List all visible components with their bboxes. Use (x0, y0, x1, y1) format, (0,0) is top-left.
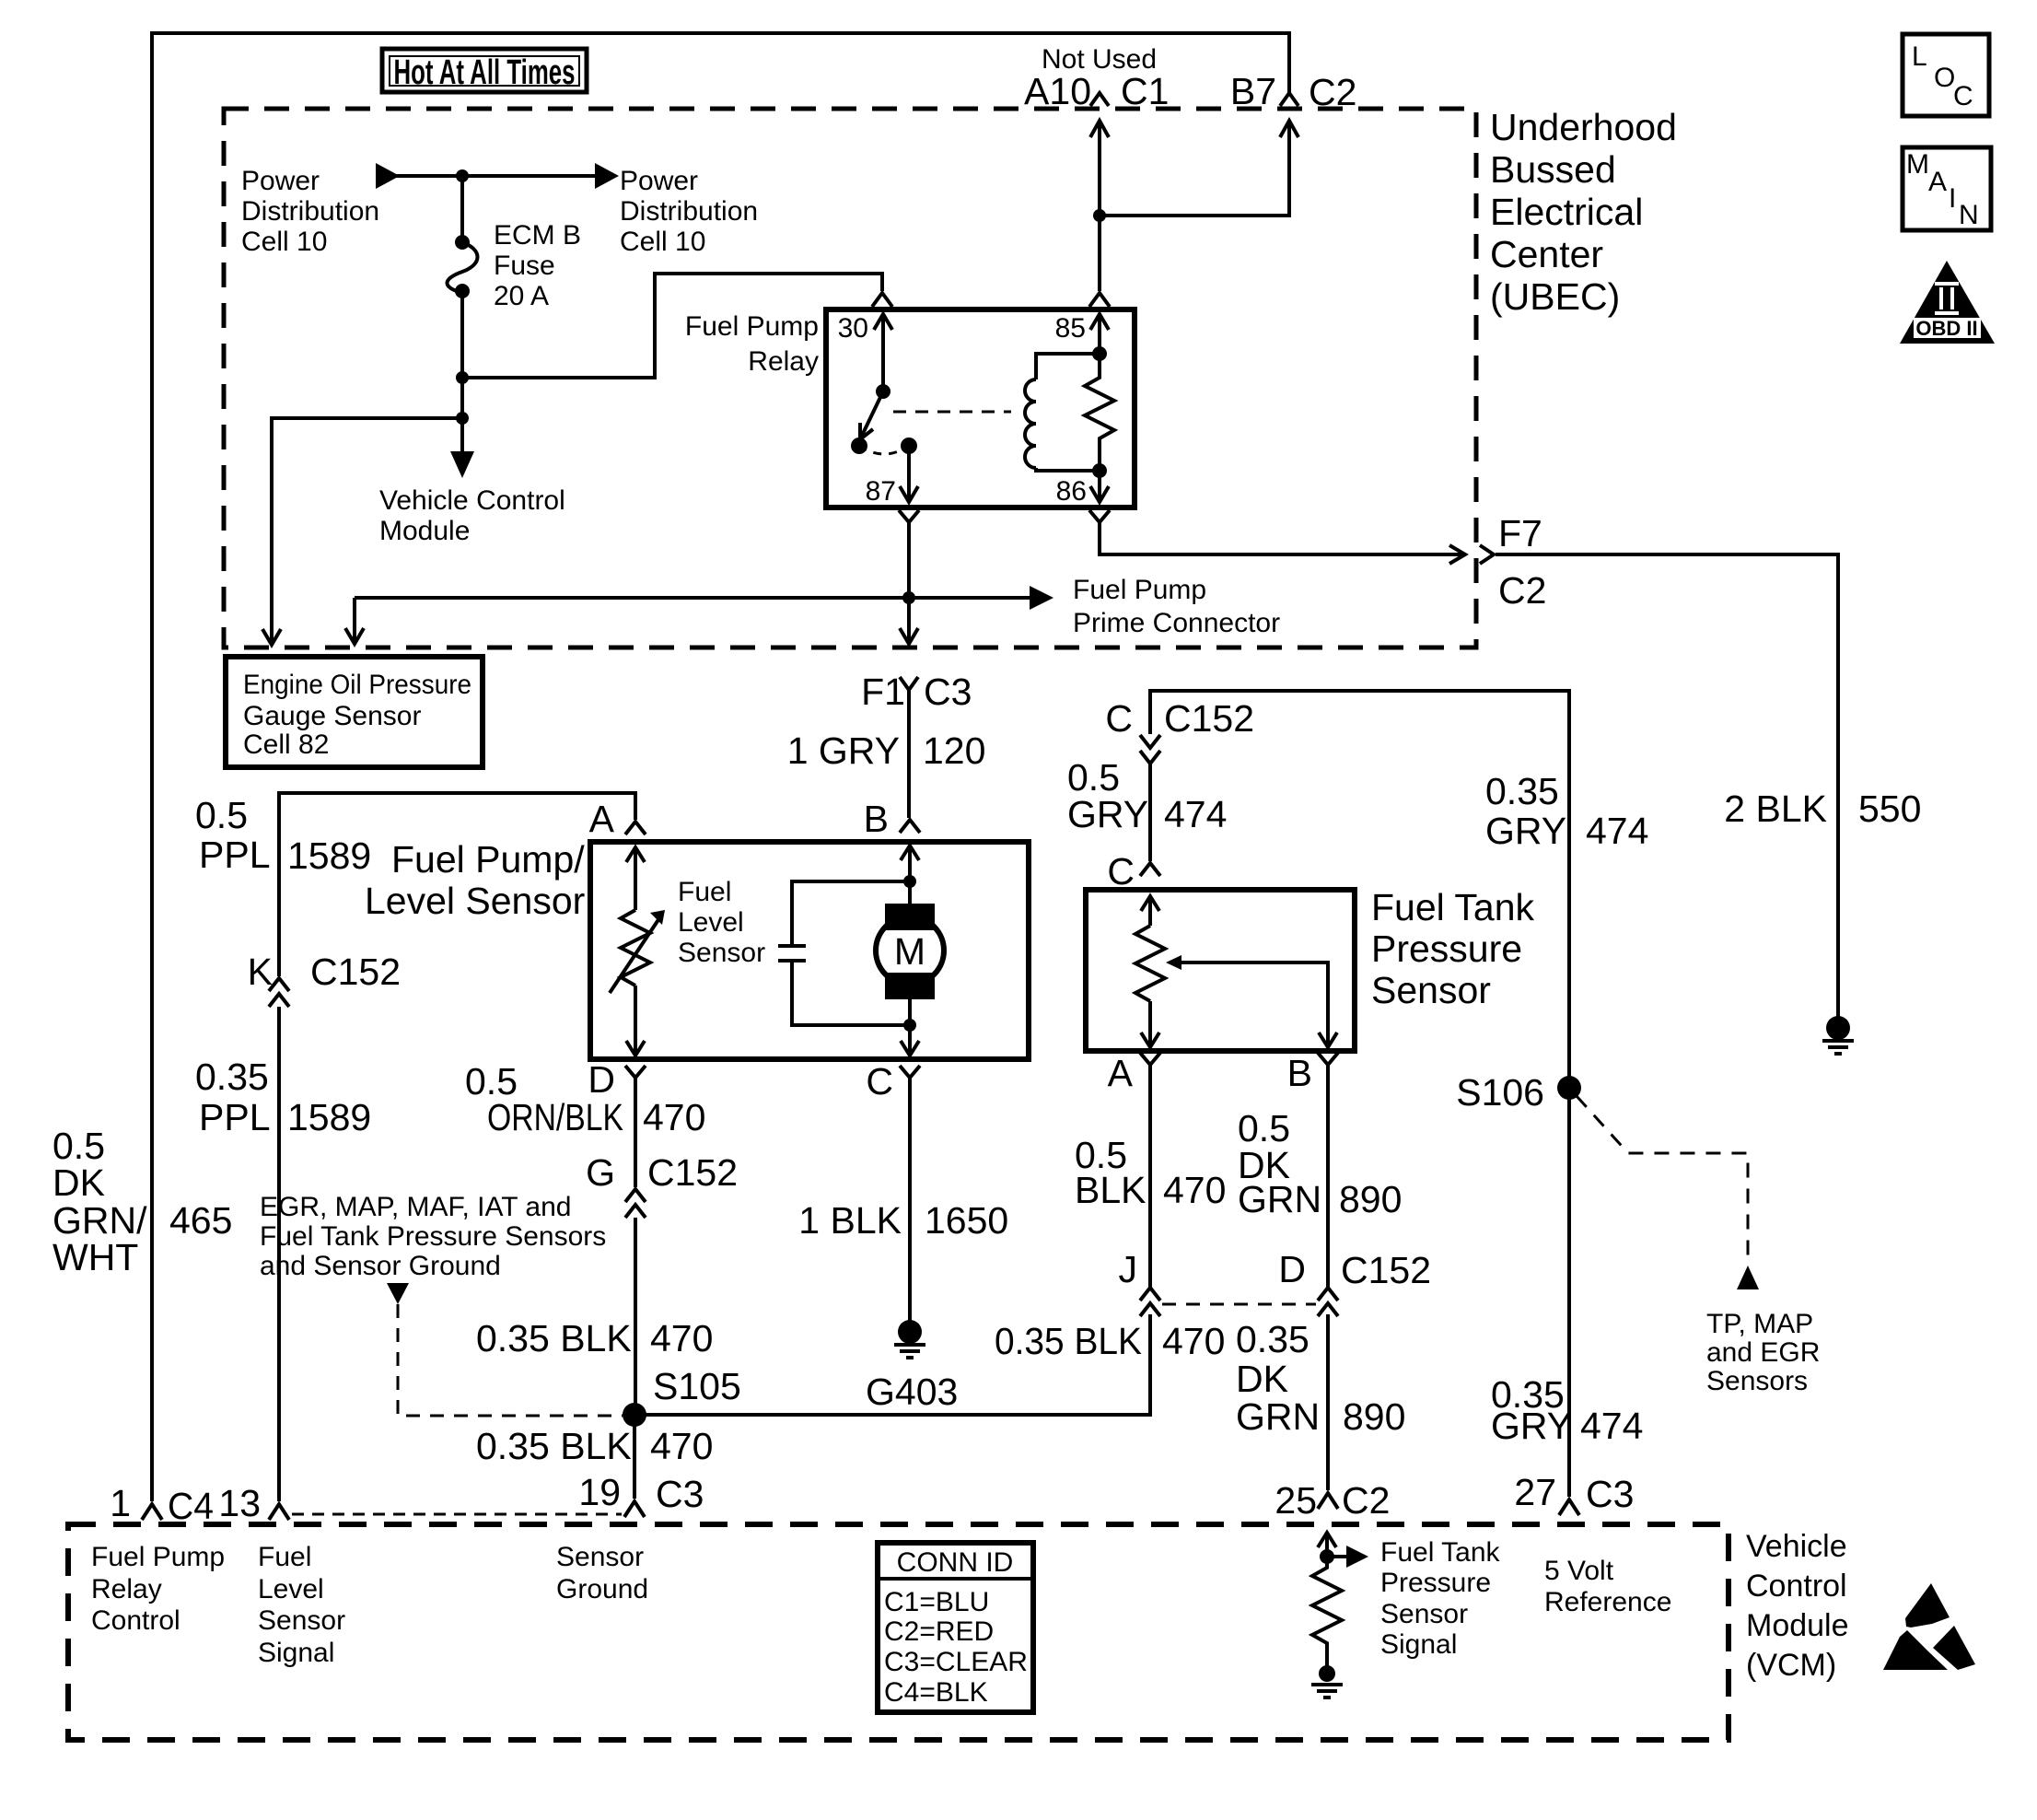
wire pressure sensor B to D C152 (1326, 1078, 1330, 1288)
svg-text:C: C (1107, 850, 1135, 892)
connector fork at VCM pin 13 (269, 1504, 289, 1520)
relay pin 85 wire with up arrow (1098, 314, 1101, 354)
wire C152 to pressure sensor C (1148, 764, 1152, 861)
MAIN legend box (1903, 147, 1991, 230)
svg-text:Hot At All Times: Hot At All Times (394, 53, 576, 92)
svg-text:Fuel Tank Pressure Sensors: Fuel Tank Pressure Sensors (260, 1221, 606, 1252)
svg-text:Gauge Sensor: Gauge Sensor (243, 701, 421, 731)
svg-text:Sensor: Sensor (1371, 969, 1491, 1011)
svg-text:25: 25 (1275, 1479, 1317, 1522)
svg-text:Fuel Tank: Fuel Tank (1371, 886, 1535, 928)
OBD II triangle (1900, 261, 1995, 344)
wire prime tee right branch (909, 596, 1030, 600)
svg-text:Sensor: Sensor (1380, 1599, 1468, 1629)
svg-text:1 GRY: 1 GRY (787, 729, 900, 772)
fuse F1 ECM B 20A (455, 235, 470, 250)
svg-text:470: 470 (650, 1425, 713, 1467)
svg-text:1589: 1589 (287, 1096, 371, 1138)
svg-text:N: N (1959, 200, 1979, 230)
svg-text:C152: C152 (1164, 697, 1254, 740)
svg-text:Pressure: Pressure (1371, 927, 1522, 970)
svg-text:Vehicle Control: Vehicle Control (379, 485, 565, 516)
relay actuation dashed link (893, 411, 1011, 414)
svg-text:C152: C152 (310, 951, 401, 993)
VCM pin 25 internal up arrow (1325, 1533, 1329, 1557)
svg-text:GRY: GRY (1491, 1405, 1572, 1447)
svg-text:(VCM): (VCM) (1746, 1648, 1836, 1683)
wire D C152 to VCM pin 25 (1326, 1314, 1330, 1490)
svg-text:PPL: PPL (199, 834, 271, 876)
svg-text:A: A (1108, 1052, 1134, 1094)
wire junction to Engine Oil Pressure branch (272, 418, 462, 632)
connector fork at VCM pin 1 (142, 1504, 162, 1520)
svg-text:0.35: 0.35 (1485, 770, 1559, 812)
CONN ID header separator (878, 1577, 1033, 1581)
svg-text:Reference: Reference (1544, 1587, 1671, 1617)
svg-text:A10: A10 (1024, 70, 1091, 112)
node capacitor top tie (903, 875, 916, 888)
svg-text:OBD II: OBD II (1915, 317, 1977, 340)
svg-text:890: 890 (1339, 1178, 1402, 1220)
svg-text:PPL: PPL (199, 1096, 271, 1138)
svg-text:0.35 BLK: 0.35 BLK (995, 1320, 1142, 1362)
wire pin 87 down to UBEC border (907, 535, 911, 642)
ESD symbol triangles (1905, 1583, 1950, 1627)
svg-text:Fuel: Fuel (258, 1542, 311, 1572)
svg-text:474: 474 (1164, 793, 1227, 835)
svg-text:0.35: 0.35 (195, 1056, 269, 1098)
connector chevron A10 (1090, 93, 1109, 106)
svg-text:B: B (1287, 1052, 1312, 1094)
svg-text:C: C (866, 1060, 893, 1102)
svg-text:GRN: GRN (1238, 1178, 1321, 1220)
arrow solid right (from Power Distribution left) (376, 163, 400, 189)
wire fuse output (460, 293, 464, 378)
svg-text:470: 470 (650, 1317, 713, 1359)
arrow solid right to Fuel Pump Prime Connector (1030, 586, 1053, 610)
wire S105 to J (634, 1314, 1150, 1415)
connector fork pressure sensor pin A (1140, 1053, 1160, 1065)
wire 0.35 PPL from K to VCM pin 13 (277, 1007, 281, 1501)
svg-text:C2: C2 (1498, 569, 1546, 612)
svg-text:Cell 82: Cell 82 (243, 729, 329, 760)
fuel level sensor wire upper with up arrow (634, 847, 637, 910)
svg-text:Fuel Pump: Fuel Pump (1073, 575, 1206, 605)
svg-text:J: J (1119, 1248, 1138, 1290)
arrow open down at UBEC border (EOP branch) (262, 629, 281, 645)
svg-text:Vehicle: Vehicle (1746, 1529, 1847, 1564)
svg-text:GRY: GRY (1485, 810, 1566, 852)
svg-text:Fuel: Fuel (678, 877, 731, 907)
connector double chevron C C152 (down) (1140, 735, 1160, 748)
svg-text:Relay: Relay (748, 346, 819, 377)
svg-text:Sensor: Sensor (258, 1605, 345, 1636)
wire not-used A10 branch with up arrow (1098, 121, 1101, 216)
box Fuel Pump/Level Sensor (590, 842, 1029, 1059)
connector chevron fuel pump pin B (900, 820, 920, 833)
svg-text:1 BLK: 1 BLK (798, 1199, 902, 1242)
svg-text:A: A (1928, 167, 1947, 197)
relay coil L1 (1036, 354, 1100, 379)
svg-text:Prime Connector: Prime Connector (1073, 608, 1280, 638)
svg-text:BLK: BLK (1075, 1169, 1147, 1211)
dashed link J to D (1162, 1303, 1316, 1306)
box Engine Oil Pressure Gauge Sensor Cell 82 (226, 657, 483, 767)
wire prime tee left branch (355, 596, 909, 600)
svg-text:2 BLK: 2 BLK (1724, 787, 1827, 830)
relay pin 30 wire with up arrow (881, 314, 885, 391)
ground G403 (898, 1320, 922, 1344)
connector fork pressure sensor pin B (1318, 1053, 1338, 1065)
node relay switch contact 87 (851, 437, 867, 454)
svg-text:CONN ID: CONN ID (897, 1547, 1014, 1578)
svg-text:G403: G403 (866, 1371, 958, 1413)
svg-text:Signal: Signal (258, 1638, 334, 1668)
node S105 splice (623, 1403, 646, 1427)
svg-text:Fuel Pump/: Fuel Pump/ (391, 838, 585, 881)
wire S105 to VCM pin 19 (633, 1415, 636, 1499)
svg-text:WHT: WHT (52, 1236, 138, 1278)
connector fork below relay pin 87 (899, 510, 919, 522)
svg-text:C2=RED: C2=RED (884, 1616, 994, 1647)
svg-text:Power: Power (241, 166, 320, 196)
svg-text:C152: C152 (647, 1151, 738, 1194)
svg-text:Bussed: Bussed (1490, 148, 1616, 191)
connector fork below relay pin 86 (1089, 510, 1110, 522)
svg-text:and Sensor Ground: and Sensor Ground (260, 1251, 501, 1281)
svg-text:TP, MAP: TP, MAP (1706, 1309, 1813, 1339)
svg-text:Fuel Pump: Fuel Pump (91, 1542, 225, 1572)
svg-text:1: 1 (110, 1482, 131, 1524)
svg-text:Power: Power (620, 166, 698, 196)
arrow solid up (TP MAP EGR) (1737, 1266, 1759, 1289)
svg-text:Underhood: Underhood (1490, 106, 1677, 148)
node relay switch contact aux (901, 437, 917, 454)
wire 0.35 BLK G to S105 (634, 1218, 637, 1415)
box Hot At All Times (inner) (390, 56, 579, 86)
node fuse output junction (456, 371, 469, 384)
svg-text:C3: C3 (924, 671, 972, 713)
svg-text:Module: Module (379, 516, 470, 546)
connector fork at VCM pin 19 (624, 1501, 645, 1517)
arrow solid down to Vehicle Control Module (450, 451, 474, 478)
svg-text:20 A: 20 A (494, 281, 549, 311)
svg-text:5 Volt: 5 Volt (1544, 1556, 1614, 1586)
svg-text:DK: DK (52, 1161, 105, 1204)
svg-text:C: C (1105, 697, 1133, 740)
svg-text:D: D (588, 1058, 615, 1101)
svg-text:Sensor: Sensor (678, 938, 765, 968)
svg-text:Level Sensor: Level Sensor (365, 880, 585, 922)
wire 0.5 PPL from fuel pump A to K C152 (279, 793, 635, 976)
connector chevron fuel pump pin A (625, 822, 646, 834)
connector double chevron D C152 (1318, 1288, 1338, 1301)
svg-text:ORN/BLK: ORN/BLK (487, 1096, 623, 1138)
svg-text:C1: C1 (1121, 70, 1169, 112)
wire not-used B7 branch with up arrow (1100, 121, 1289, 216)
svg-text:I: I (1949, 183, 1956, 214)
pressure sensor wiper arrow (1166, 955, 1181, 970)
arrow open right at UBEC border (F7) (1449, 545, 1465, 564)
svg-text:GRY: GRY (1067, 793, 1148, 835)
svg-text:C4=BLK: C4=BLK (884, 1677, 988, 1708)
svg-text:550: 550 (1858, 787, 1921, 830)
svg-text:Center: Center (1490, 233, 1603, 275)
svg-text:Fuel Pump: Fuel Pump (685, 311, 819, 342)
svg-text:Electrical: Electrical (1490, 191, 1643, 233)
svg-text:DK: DK (1236, 1358, 1288, 1400)
svg-text:K: K (248, 951, 273, 993)
fuel level sensor wire lower with down arrow (626, 1041, 645, 1056)
svg-text:890: 890 (1343, 1395, 1405, 1438)
svg-text:19: 19 (578, 1471, 621, 1513)
wire feed to fuse (460, 176, 464, 240)
svg-text:C4: C4 (168, 1485, 214, 1527)
svg-text:Cell 10: Cell 10 (620, 227, 705, 257)
svg-text:G: G (586, 1151, 615, 1194)
svg-text:Signal: Signal (1380, 1629, 1457, 1660)
svg-text:Module: Module (1746, 1608, 1849, 1643)
svg-text:M: M (1906, 149, 1929, 180)
node relay coil top (1092, 346, 1107, 361)
svg-text:1650: 1650 (925, 1199, 1008, 1242)
motor M1 (885, 904, 935, 930)
svg-text:0.5: 0.5 (195, 794, 248, 836)
relay switch blade arrow (860, 391, 883, 439)
wire pin 86 to F7 (1100, 535, 1463, 554)
node relay switch pivot (876, 384, 890, 399)
svg-text:Fuse: Fuse (494, 251, 555, 281)
dashed link S106 to TP/MAP/EGR (1577, 1096, 1748, 1264)
svg-text:27: 27 (1514, 1471, 1556, 1513)
node VCM-branch junction (456, 412, 469, 425)
svg-text:0.35 BLK: 0.35 BLK (476, 1425, 632, 1467)
svg-text:87: 87 (866, 476, 896, 507)
connector double chevron K C152 (269, 978, 289, 991)
svg-text:M: M (894, 930, 925, 973)
svg-text:Control: Control (91, 1605, 180, 1636)
connector double chevron J (1140, 1288, 1160, 1301)
svg-text:Level: Level (258, 1574, 324, 1604)
svg-text:86: 86 (1056, 476, 1087, 507)
ground G (2 BLK 550) (1826, 1016, 1850, 1040)
svg-text:Distribution: Distribution (241, 196, 379, 227)
VCM dashed border (68, 1524, 1729, 1740)
wire junction down (460, 378, 464, 418)
dashed link sensor-ground note to S105 (398, 1304, 623, 1416)
svg-text:ECM B: ECM B (494, 220, 581, 251)
arrow solid down (sensor ground note) (387, 1283, 409, 1304)
svg-text:Distribution: Distribution (620, 196, 758, 227)
wire to Vehicle Control Module arrow (460, 418, 464, 453)
svg-text:S105: S105 (653, 1365, 741, 1407)
svg-text:Pressure: Pressure (1380, 1568, 1491, 1598)
LOC legend box (1903, 34, 1989, 116)
connector fork at VCM pin 25 (1318, 1493, 1338, 1509)
node prime connector junction (902, 591, 915, 604)
connector chevron at relay pin 30 (872, 293, 892, 307)
svg-text:C3=CLEAR: C3=CLEAR (884, 1647, 1028, 1677)
OBD II roman numeral (1935, 284, 1959, 313)
svg-text:B: B (864, 798, 889, 840)
svg-text:Cell 10: Cell 10 (241, 227, 327, 257)
wire fuse to relay pin 30 (462, 274, 882, 378)
connector fork at B7 (1280, 93, 1298, 106)
relay pin 87 wire with down arrow (907, 446, 911, 502)
relay pin 86 wire with down arrow (1098, 471, 1101, 502)
svg-text:A: A (589, 798, 615, 840)
svg-text:Control: Control (1746, 1569, 1847, 1604)
svg-text:465: 465 (169, 1199, 232, 1242)
svg-text:C2: C2 (1342, 1479, 1390, 1522)
relay resistor R1 zigzag (1085, 354, 1114, 471)
node S106 splice (1557, 1076, 1581, 1100)
pressure sensor resistor R zigzag (1135, 926, 1165, 1001)
connector fork F1/C3 (900, 677, 918, 690)
connector double chevron G C152 (625, 1189, 646, 1202)
OBD II label box (1915, 319, 1980, 337)
motor branch wire bottom with down arrow (908, 999, 912, 1056)
dashed link pin 13 to pin 19 (292, 1513, 622, 1516)
svg-text:L: L (1912, 41, 1927, 72)
wire F1 to fuel pump B (907, 706, 911, 818)
wire F7 to ground 550 (1496, 554, 1838, 1017)
node VCM 25 internal junction (1320, 1549, 1334, 1564)
fuel level sensor variable resistor (621, 910, 650, 986)
box Fuel Tank Pressure Sensor (1086, 890, 1355, 1051)
wire hot feed bus with junction (396, 174, 599, 178)
svg-text:C: C (1953, 81, 1973, 111)
arrow solid right (to Power Distribution right) (595, 163, 619, 189)
VCM internal ground (1319, 1665, 1335, 1682)
svg-text:C3: C3 (656, 1473, 704, 1515)
relay box Fuel Pump Relay (826, 309, 1135, 507)
svg-text:Engine Oil Pressure: Engine Oil Pressure (243, 670, 471, 700)
svg-text:O: O (1934, 63, 1955, 93)
connector fork at VCM pin 27 (1559, 1499, 1579, 1515)
svg-text:C1=BLU: C1=BLU (884, 1587, 989, 1617)
svg-text:B7: B7 (1230, 70, 1276, 112)
svg-text:1589: 1589 (287, 834, 371, 877)
wire 0.5 ORN/BLK pump D to G C152 (634, 1091, 637, 1187)
svg-text:470: 470 (1163, 1169, 1226, 1211)
connector fork fuel pump pin C (900, 1066, 920, 1078)
svg-text:474: 474 (1586, 810, 1648, 852)
wire pressure sensor A to J (1148, 1078, 1152, 1288)
connector chevron at relay pin 85 (1089, 293, 1110, 307)
UBEC dashed border (224, 109, 1476, 647)
node relay coil bottom (1092, 463, 1107, 478)
svg-text:F1: F1 (861, 671, 905, 713)
svg-text:0.35 BLK: 0.35 BLK (476, 1317, 632, 1359)
wire EOP arrow shaft (270, 632, 274, 643)
connector fork fuel pump pin D (625, 1066, 646, 1078)
wire 5V reference top run (1150, 691, 1569, 1497)
svg-text:D: D (1278, 1248, 1306, 1290)
svg-text:474: 474 (1580, 1405, 1643, 1447)
svg-text:C3: C3 (1586, 1473, 1634, 1515)
svg-text:0.35: 0.35 (1236, 1318, 1309, 1360)
wire not-used junction down to relay pin 85 (1098, 216, 1101, 291)
box Hot At All Times (outer) (382, 49, 587, 92)
svg-text:30: 30 (838, 313, 868, 344)
pressure sensor resistor wire top with up arrow (1148, 896, 1152, 926)
svg-text:EGR, MAP, MAF, IAT and: EGR, MAP, MAF, IAT and (260, 1192, 571, 1222)
svg-text:S106: S106 (1456, 1071, 1544, 1114)
pressure sensor resistor wire bottom with down arrow (1148, 1001, 1152, 1047)
node capacitor bottom tie (903, 1019, 916, 1032)
wire relay control B7 to VCM pin 1 (outer border path) (152, 33, 1289, 1501)
svg-text:Fuel Tank: Fuel Tank (1380, 1537, 1501, 1568)
wire prime left branch down arrow (353, 598, 356, 642)
VCM internal resistor R (pullup) (1312, 1557, 1342, 1667)
node not-used junction (1093, 209, 1106, 222)
motor branch wire top with up arrow (908, 846, 912, 904)
svg-text:470: 470 (643, 1096, 705, 1138)
svg-text:C152: C152 (1341, 1249, 1431, 1291)
svg-text:and EGR: and EGR (1706, 1337, 1820, 1368)
connector chevron pressure sensor pin C (1140, 863, 1160, 876)
arrow solid right (Fuel Tank Pressure Sensor Signal) (1327, 1555, 1346, 1558)
svg-text:Sensor: Sensor (556, 1542, 644, 1572)
svg-text:Ground: Ground (556, 1574, 648, 1604)
svg-text:13: 13 (218, 1482, 261, 1524)
CONN ID table box (878, 1543, 1033, 1712)
svg-text:85: 85 (1055, 313, 1086, 344)
svg-text:Sensors: Sensors (1706, 1366, 1808, 1396)
svg-text:GRN: GRN (1236, 1395, 1320, 1438)
svg-text:F7: F7 (1498, 512, 1542, 554)
capacitor C1 (pump) (792, 881, 910, 946)
svg-text:(UBEC): (UBEC) (1490, 275, 1620, 318)
svg-text:Level: Level (678, 907, 744, 938)
wire fuel pump C to G403 (908, 1091, 912, 1321)
svg-text:120: 120 (923, 729, 985, 772)
svg-text:Relay: Relay (91, 1574, 162, 1604)
connector chevron F7/C2 (1480, 545, 1494, 564)
node feed junction (456, 169, 469, 182)
relay switch dashed arc (859, 446, 909, 454)
svg-text:470: 470 (1162, 1320, 1225, 1362)
